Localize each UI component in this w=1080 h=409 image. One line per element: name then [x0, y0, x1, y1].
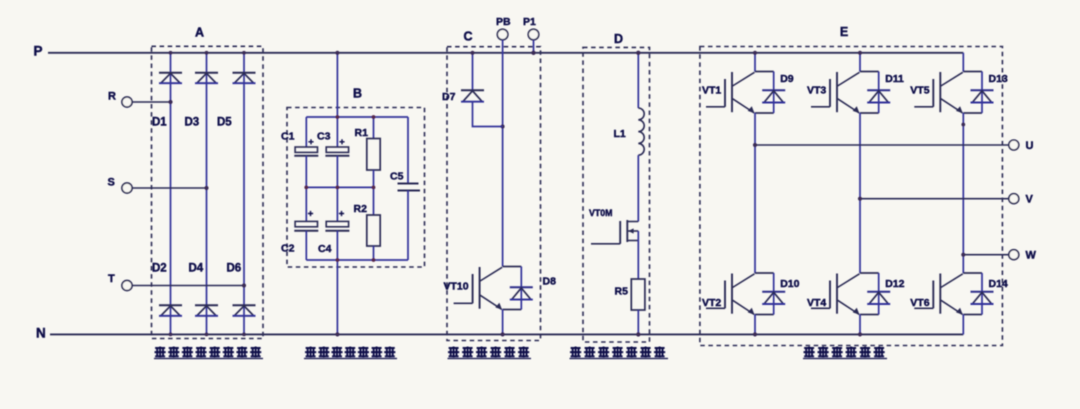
caption: three-phase bridge rectifier circuit — [155, 347, 166, 358]
svg-text:D2: D2 — [152, 263, 167, 275]
wire R5 to N bus — [637, 310, 639, 334]
svg-text:D8: D8 — [543, 276, 557, 288]
svg-text:C3: C3 — [317, 131, 331, 143]
junction emitter stub / N bus — [753, 332, 757, 336]
junction PB stem / D7 branch — [501, 125, 505, 129]
junction PSU branch / P bus — [636, 51, 640, 55]
dashed boundary box B (energy-storage filter) — [287, 108, 425, 268]
diode D5 — [233, 73, 256, 84]
inductor L1 — [638, 108, 644, 155]
svg-text:VT4: VT4 — [807, 297, 826, 309]
diode D1 — [159, 73, 182, 84]
svg-text:VT6: VT6 — [910, 297, 929, 309]
diode D6 — [233, 305, 256, 316]
transistor VT1 (IGBT) — [706, 72, 774, 114]
transistor VT5 (IGBT) — [914, 72, 982, 114]
wire R to leg 1 — [132, 101, 170, 103]
diode D13 — [971, 90, 994, 102]
wire PB stem down to IGBT collector — [502, 40, 504, 267]
wire inverter leg 1 collector stub — [754, 53, 756, 72]
transistor VT0M (MOSFET) — [591, 220, 638, 244]
svg-text:C4: C4 — [318, 243, 332, 255]
junction W rail / leg 3 — [961, 253, 965, 257]
diode D3 — [195, 73, 218, 84]
junction filter rail — [336, 258, 340, 262]
svg-text:VT10: VT10 — [444, 281, 469, 293]
svg-text:D14: D14 — [989, 278, 1008, 290]
wire L1 to MOSFET drain — [637, 155, 639, 221]
wire rectifier leg 2 vertical — [206, 53, 208, 335]
svg-text:B: B — [353, 87, 362, 101]
resistor R5 — [631, 279, 645, 310]
diode D11 — [867, 90, 890, 102]
svg-text:VT5: VT5 — [910, 85, 929, 97]
wire rectifier leg 1 vertical — [170, 53, 172, 335]
wire output rail U — [755, 144, 1009, 146]
svg-text:W: W — [1026, 250, 1037, 262]
svg-text:D11: D11 — [885, 73, 904, 85]
svg-text:V: V — [1026, 194, 1034, 206]
wire diode column of D14 — [981, 273, 983, 315]
transistor VT3 (IGBT) — [811, 72, 879, 114]
svg-text:P1: P1 — [523, 16, 536, 28]
caption: switching power supply circuit — [570, 347, 581, 358]
diode D7 — [461, 90, 484, 102]
wire diode column of D10 — [773, 273, 775, 315]
diode D4 — [195, 305, 218, 316]
svg-text:C: C — [463, 30, 472, 44]
svg-text:A: A — [195, 26, 204, 40]
wire inverter leg 2 collector stub — [859, 53, 861, 72]
wire inverter leg 1 midpoint vertical — [754, 113, 756, 273]
junction filter rail — [336, 115, 340, 119]
svg-text:U: U — [1026, 140, 1034, 152]
dashed boundary box E (inverter) — [700, 47, 1003, 346]
dashed boundary box A (three-phase bridge rectifier) — [152, 46, 264, 338]
svg-text:D13: D13 — [989, 73, 1008, 85]
diode D2 — [159, 305, 182, 316]
wire VT10 emitter to N bus — [502, 310, 504, 335]
svg-text:N: N — [36, 325, 46, 340]
wire output rail W — [963, 254, 1009, 256]
wire DC bus drop into filter (P side) — [336, 53, 338, 117]
caption: energy storage and filter circuit — [305, 347, 316, 358]
transistor VT2 (IGBT) — [706, 273, 774, 315]
junction R wire / leg 1 — [168, 100, 172, 104]
dashed boundary box C (DC braking) — [447, 47, 541, 341]
wire P1 stem to P bus — [533, 40, 535, 53]
wire filter drop to N bus — [336, 260, 338, 334]
svg-text:D1: D1 — [152, 117, 167, 129]
wire N bus (bottom DC rail) — [50, 333, 963, 335]
svg-text:E: E — [840, 25, 848, 39]
wire rectifier leg 3 vertical — [243, 53, 245, 335]
wire diode column of D11 — [878, 72, 880, 114]
junction filter drop / N bus — [335, 332, 339, 336]
wire filter bottom rail — [306, 259, 408, 261]
transistor VT10 (IGBT) — [454, 267, 522, 310]
svg-text:D12: D12 — [885, 278, 904, 290]
junction leg 2 / N bus — [205, 333, 209, 337]
junction filter drop / P bus — [335, 51, 339, 55]
wire inverter leg 2 midpoint vertical — [859, 113, 861, 273]
wire inverter leg 3 collector stub — [962, 53, 964, 72]
diode D9 — [762, 90, 785, 102]
svg-text:S: S — [108, 177, 115, 189]
junction D7 branch / P bus — [470, 51, 474, 55]
wire MOSFET source to R5 — [637, 231, 639, 279]
wire diode column of D13 — [981, 72, 983, 114]
junction leg stub / P bus — [858, 51, 862, 55]
svg-text:D6: D6 — [227, 263, 242, 275]
junction V rail / leg 2 — [858, 197, 862, 201]
wire inverter leg 3 midpoint vertical — [962, 113, 964, 273]
diode D8 — [510, 287, 533, 299]
junction filter rail — [304, 186, 308, 190]
terminal U — [1009, 140, 1019, 150]
svg-text:L1: L1 — [614, 128, 626, 140]
capacitor C2 (electrolytic) — [294, 187, 318, 260]
resistor R1 — [367, 117, 380, 187]
terminal V — [1009, 194, 1019, 204]
svg-text:C2: C2 — [281, 243, 295, 255]
capacitor C1 (electrolytic) — [294, 117, 318, 187]
wire inverter leg 3 emitter stub to N bus — [962, 315, 964, 335]
wire T to leg 3 — [132, 285, 244, 287]
junction P1 / P bus — [531, 51, 535, 55]
junction leg 3 / P bus — [242, 51, 246, 55]
junction filter rail — [372, 115, 376, 119]
junction U rail / leg 1 — [753, 143, 757, 147]
junction filter rail — [372, 186, 376, 190]
svg-text:R2: R2 — [354, 203, 368, 215]
svg-text:VT3: VT3 — [807, 85, 826, 97]
capacitor C4 (electrolytic) — [325, 187, 349, 260]
svg-text:D10: D10 — [780, 278, 799, 290]
capacitor C5 — [398, 117, 421, 260]
wire output rail V — [860, 198, 1009, 200]
wire D7 branch from P bus — [472, 53, 474, 90]
wire S to leg 2 — [132, 187, 206, 189]
junction leg 3 / N bus — [242, 333, 246, 337]
junction filter rail — [372, 258, 376, 262]
junction leg 2 / P bus — [205, 51, 209, 55]
junction S wire / leg 2 — [204, 186, 208, 190]
svg-text:C1: C1 — [281, 131, 295, 143]
svg-text:R: R — [108, 91, 116, 103]
junction filter rail — [336, 186, 340, 190]
junction T wire / leg 3 — [242, 283, 246, 287]
resistor R2 — [367, 187, 380, 260]
junction VT10 emitter / N bus — [501, 332, 505, 336]
svg-text:D: D — [614, 32, 623, 46]
svg-text:D7: D7 — [442, 91, 456, 103]
diode D10 — [762, 292, 785, 304]
wire diode column of D9 — [773, 72, 775, 114]
terminal W — [1009, 250, 1019, 260]
wire filter mid rail — [306, 186, 374, 188]
svg-text:C5: C5 — [390, 171, 404, 183]
wire P bus (top DC rail) — [48, 52, 963, 54]
transistor VT4 (IGBT) — [811, 273, 879, 315]
wire inverter leg 2 emitter stub to N bus — [859, 315, 861, 335]
svg-text:VT1: VT1 — [702, 85, 721, 97]
svg-text:D3: D3 — [185, 117, 200, 129]
junction R5 / N bus — [636, 332, 640, 336]
svg-text:D9: D9 — [780, 73, 794, 85]
svg-text:T: T — [108, 273, 115, 285]
caption: DC braking circuit — [448, 347, 459, 358]
svg-text:D4: D4 — [189, 263, 204, 275]
junction leg 1 / N bus — [169, 333, 173, 337]
wire D7 anode down and over to PB line — [473, 102, 503, 127]
junction emitter stub / N bus — [858, 332, 862, 336]
junction leg 1 / P bus — [169, 51, 173, 55]
wire diode column of D8 — [520, 267, 522, 310]
svg-text:VT2: VT2 — [702, 297, 721, 309]
svg-text:D5: D5 — [217, 117, 232, 129]
diode D12 — [867, 292, 890, 304]
wire diode column of D12 — [878, 273, 880, 315]
wire inverter leg 1 emitter stub to N bus — [754, 315, 756, 335]
transistor VT6 (IGBT) — [914, 273, 982, 315]
wire PSU branch from P bus — [637, 53, 639, 108]
svg-text:PB: PB — [496, 16, 511, 28]
svg-text:R5: R5 — [615, 286, 629, 298]
svg-text:R1: R1 — [355, 127, 369, 139]
capacitor C3 (electrolytic) — [325, 117, 349, 187]
caption: inverter power circuit — [804, 347, 815, 358]
wire filter top rail — [306, 116, 408, 118]
junction artifact on leg 3 — [961, 123, 965, 127]
dashed boundary box D (switching power supply) — [583, 47, 650, 342]
svg-text:VT0M: VT0M — [589, 208, 612, 218]
diode D14 — [971, 292, 994, 304]
svg-text:P: P — [34, 43, 43, 58]
junction leg stub / P bus — [753, 51, 757, 55]
